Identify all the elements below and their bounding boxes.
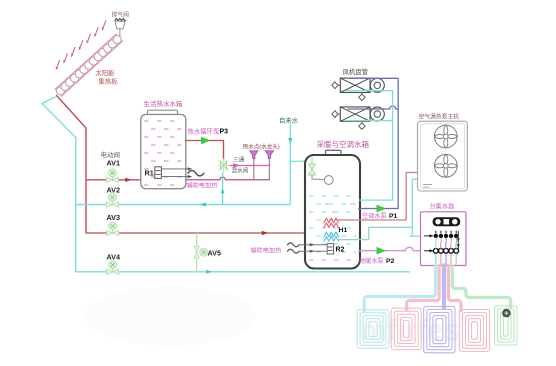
valve AV4 — [107, 269, 119, 274]
fan coil unit 1 — [332, 78, 384, 100]
svg-text:自来水: 自来水 — [279, 116, 299, 125]
svg-text:地暖水泵: 地暖水泵 — [359, 257, 384, 265]
tank2 heating and AC tank — [305, 150, 360, 268]
svg-text:AV5: AV5 — [208, 249, 221, 258]
floor coil 1 (cyan) — [357, 310, 389, 348]
manifold box — [421, 212, 467, 266]
manifold return row — [424, 248, 459, 253]
svg-text:混水阀: 混水阀 — [232, 167, 249, 175]
wire loop2 feed pink — [407, 265, 440, 310]
manifold right header — [457, 231, 460, 250]
pump P1 — [377, 205, 385, 212]
svg-text:AV2: AV2 — [107, 186, 120, 195]
pump P2 — [377, 247, 385, 254]
wire loop1 feed cyan — [364, 265, 435, 311]
wire P1 line — [359, 208, 399, 210]
wire loop3 feed purple — [442, 265, 446, 307]
label solar panel — [96, 68, 119, 86]
valve AV1 — [106, 177, 118, 182]
svg-text:风机盘管: 风机盘管 — [343, 67, 369, 76]
float valve tank2 — [308, 158, 333, 185]
svg-text:三通: 三通 — [233, 156, 245, 164]
floor coil 5 (green) — [495, 306, 517, 345]
wire heat pump hot — [338, 173, 418, 221]
sun ray arrows — [55, 20, 106, 70]
solar collector panel — [55, 34, 123, 96]
svg-text:H1: H1 — [339, 227, 348, 234]
H1 blue coil — [324, 232, 339, 241]
wire loop4 feed pink — [448, 265, 461, 310]
wire FCU1 supply (blue) — [348, 77, 398, 79]
wire AV5 bypass — [196, 233, 198, 272]
wire mixed water — [230, 165, 270, 167]
wire tap water — [288, 125, 292, 205]
floor coil 4 (pink) — [459, 310, 489, 352]
wire AV3 hot line y233 — [86, 231, 305, 235]
svg-text:R2: R2 — [336, 247, 345, 254]
svg-text:太阳能: 太阳能 — [96, 68, 116, 77]
svg-text:辅助电加热: 辅助电加热 — [187, 182, 219, 190]
svg-text:AV4: AV4 — [107, 253, 120, 262]
svg-text:空调水泵: 空调水泵 — [362, 212, 387, 220]
exhaust valve — [115, 19, 127, 37]
wire FCU2 supply with hop — [348, 106, 398, 109]
manifold supply row — [424, 231, 458, 238]
floor coil 2 (pink) — [391, 308, 421, 349]
wire P2 line with hop — [359, 247, 422, 250]
tank2 water dashes — [309, 196, 356, 260]
wire AV2 cold line y204 — [76, 203, 290, 207]
tank1 water dashes — [144, 121, 183, 185]
thermostat icon on coil5 — [503, 309, 510, 316]
svg-text:分集水器: 分集水器 — [430, 203, 456, 211]
svg-text:排气阀: 排气阀 — [112, 11, 130, 19]
wire FCU1 return (cyan) — [346, 91, 393, 200]
svg-text:P3: P3 — [220, 129, 229, 136]
valve AV5 — [194, 246, 199, 258]
svg-text:采暖与空调水箱: 采暖与空调水箱 — [317, 139, 370, 149]
wire manifold supply entry — [410, 235, 424, 237]
svg-text:用水点(水龙头): 用水点(水龙头) — [243, 143, 280, 151]
pump P3 — [201, 137, 209, 144]
valve AV2 — [106, 202, 118, 207]
svg-text:R1: R1 — [145, 169, 154, 178]
svg-text:热水循环泵: 热水循环泵 — [188, 127, 221, 136]
wire AV4 cold line y272 — [76, 270, 410, 274]
wire blue riser — [397, 78, 399, 208]
wire P3 line — [186, 141, 224, 160]
svg-text:P2: P2 — [386, 258, 395, 265]
wire FCU2 return — [346, 120, 393, 122]
svg-text:AV1: AV1 — [107, 159, 120, 168]
wire solar hot (red) riser — [57, 96, 87, 234]
tank1 domestic hot water tank — [141, 110, 186, 189]
manifold pump bar — [433, 217, 461, 226]
wire AV1 hot line y180 — [86, 177, 269, 182]
AC source tilde R1 — [188, 171, 204, 176]
svg-text:空气源热泵主机: 空气源热泵主机 — [419, 113, 460, 121]
heater H1 red coil — [324, 218, 339, 227]
label P1 — [362, 212, 398, 220]
watermark — [85, 286, 460, 347]
wire loop5 feed green — [452, 265, 510, 307]
wire heat pump return riser — [412, 179, 417, 236]
wire tank2 to hp return — [339, 227, 413, 239]
svg-text:集热板: 集热板 — [99, 77, 119, 86]
wire solar cold (cyan) riser — [42, 97, 76, 272]
floor coil 3 (purple) — [424, 306, 455, 352]
svg-text:电动阀: 电动阀 — [101, 150, 121, 159]
heater R2 — [299, 243, 334, 254]
wire cyan return to tank2 — [359, 199, 393, 201]
AC tildes R2 — [288, 243, 300, 253]
manifold loop squiggles — [435, 238, 456, 248]
svg-text:辅助电加热: 辅助电加热 — [251, 247, 283, 255]
wire cold to mixing valve — [221, 173, 225, 205]
wire tap to tank2 float — [290, 160, 306, 162]
air source heat pump unit — [418, 121, 468, 191]
faucets (use points) — [250, 151, 274, 180]
svg-text:P1: P1 — [389, 213, 398, 220]
label P3 — [188, 127, 229, 136]
heater R1 — [155, 167, 192, 179]
svg-text:AV3: AV3 — [107, 213, 120, 222]
fan coil unit 2 — [332, 107, 384, 129]
manifold loop tails — [436, 253, 456, 265]
mixing valve 3-way — [218, 158, 240, 172]
valve AV3 — [107, 230, 119, 235]
label P2 — [359, 257, 395, 265]
svg-text:生活热水水箱: 生活热水水箱 — [144, 99, 184, 108]
